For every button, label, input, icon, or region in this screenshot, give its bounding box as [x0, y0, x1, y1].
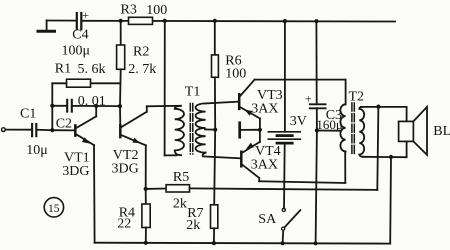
node speaker top feedback: [376, 105, 380, 109]
transistor VT2: [119, 106, 121, 126]
svg-text:2. 7k: 2. 7k: [128, 62, 156, 77]
wire VT3 collector to T2 primary top: [255, 79, 346, 81]
node top rail T1 junction: [163, 19, 167, 23]
svg-text:C2: C2: [56, 117, 72, 132]
node SA bottom: [281, 241, 285, 245]
wire T1 secondary top to VT3 base: [206, 102, 239, 104]
wire feedback line / R5 line: [146, 188, 166, 190]
node C3 line T2 tap: [315, 128, 319, 132]
svg-text:+: +: [82, 8, 89, 22]
node top rail C3 junction: [314, 19, 318, 23]
wire VT2 collector to T1: [147, 105, 181, 108]
wire top rail left segment to C4: [47, 20, 76, 22]
capacitor C1: [31, 124, 33, 136]
wire T1 secondary bottom to VT4 base: [203, 153, 241, 159]
node VT2 base: [118, 104, 122, 108]
transformer T1 core: [189, 104, 191, 155]
transistor VT1: [52, 129, 74, 131]
svg-text:3DG: 3DG: [62, 164, 89, 179]
wire R6 line down to R5 line: [213, 130, 216, 189]
wire T2 secondary bottom to speaker: [363, 156, 407, 158]
svg-text:SA: SA: [258, 212, 277, 227]
node R7 bottom: [212, 241, 216, 245]
svg-text:R2: R2: [133, 44, 149, 59]
node top rail R6 junction: [213, 19, 217, 23]
ground (middle bar at emitters): [238, 123, 241, 137]
wire C3 line to bottom rail: [316, 130, 317, 243]
svg-text:C1: C1: [20, 107, 36, 122]
svg-text:100μ: 100μ: [62, 44, 91, 59]
svg-text:VT2: VT2: [113, 148, 139, 163]
wire T2 center tap: [317, 130, 340, 132]
node VT1 base: [50, 128, 54, 132]
capacitor C3: [315, 21, 317, 104]
wire emitters junction: [259, 118, 261, 141]
resistor R4: [145, 189, 147, 204]
svg-text:15: 15: [48, 203, 60, 215]
resistor R1: [91, 82, 121, 84]
wire feedback riser: [377, 107, 378, 190]
svg-text:3AX: 3AX: [251, 158, 278, 173]
svg-text:10μ: 10μ: [26, 143, 48, 158]
node speaker bottom rail riser: [389, 155, 393, 159]
capacitor C2: [52, 105, 66, 107]
wire C1 to VT1 base: [37, 129, 52, 131]
transformer T1 secondary winding: [196, 103, 206, 152]
svg-text:160μ: 160μ: [316, 117, 343, 132]
wire T1 center tap: [205, 128, 215, 130]
transformer T1 primary winding: [175, 106, 184, 155]
wire top rail to T1 primary bottom: [164, 21, 166, 156]
resistor R6: [214, 21, 216, 55]
wire bottom rail: [95, 242, 391, 245]
input terminal: [2, 128, 6, 132]
node R4 bottom: [144, 241, 148, 245]
svg-text:R5: R5: [173, 170, 189, 185]
transformer T2 core: [351, 103, 353, 155]
svg-text:0. 01: 0. 01: [78, 94, 106, 109]
wire VT4 collector to T2 primary bottom: [258, 178, 260, 181]
svg-text:R3: R3: [121, 3, 137, 18]
wire bottom rail riser: [389, 157, 392, 244]
battery 3V: [284, 21, 286, 132]
svg-text:+: +: [305, 92, 312, 106]
wire input to C1: [5, 129, 31, 131]
node emitters junction: [258, 128, 262, 132]
node VT1 collector: [94, 104, 98, 108]
wire C1 node riser: [51, 106, 53, 131]
wire VT2 emitter down: [145, 145, 147, 189]
transformer T2 secondary winding: [359, 107, 364, 157]
transformer T2 primary winding: [340, 104, 345, 151]
svg-text:3AX: 3AX: [251, 101, 278, 116]
ground (top-left bar): [46, 21, 48, 31]
capacitor C4: [76, 13, 78, 29]
node top rail R2 junction: [119, 19, 123, 23]
svg-text:3DG: 3DG: [112, 162, 139, 177]
resistor R7: [213, 189, 215, 205]
node VT2 emitter R5 R4: [144, 187, 148, 191]
svg-text:5. 6k: 5. 6k: [78, 62, 106, 77]
svg-text:T1: T1: [185, 85, 201, 100]
speaker BL: [406, 107, 408, 122]
node C2 left: [50, 104, 54, 108]
wire top rail main: [82, 20, 395, 23]
resistor R3: [129, 17, 153, 24]
svg-text:100: 100: [225, 67, 246, 82]
figure number circled 15: [44, 198, 63, 217]
node T1 tap R6: [213, 128, 217, 132]
svg-text:22: 22: [117, 216, 131, 231]
svg-text:3V: 3V: [290, 114, 307, 129]
svg-text:2k: 2k: [173, 197, 187, 212]
svg-text:2k: 2k: [186, 218, 200, 233]
svg-text:T2: T2: [349, 90, 365, 105]
transistor VT3: [238, 94, 241, 109]
node C3 bottom: [314, 241, 318, 245]
resistor R2: [120, 21, 122, 45]
svg-text:R1: R1: [55, 62, 71, 77]
switch SA: [282, 208, 285, 211]
wire VT1 emitter down: [93, 145, 96, 243]
wire T2 secondary top to speaker: [361, 106, 407, 108]
svg-text:BL: BL: [433, 124, 450, 139]
transistor VT4: [240, 152, 243, 167]
svg-text:C4: C4: [72, 28, 88, 43]
svg-text:100: 100: [146, 3, 167, 18]
node top rail battery junction: [283, 19, 287, 23]
